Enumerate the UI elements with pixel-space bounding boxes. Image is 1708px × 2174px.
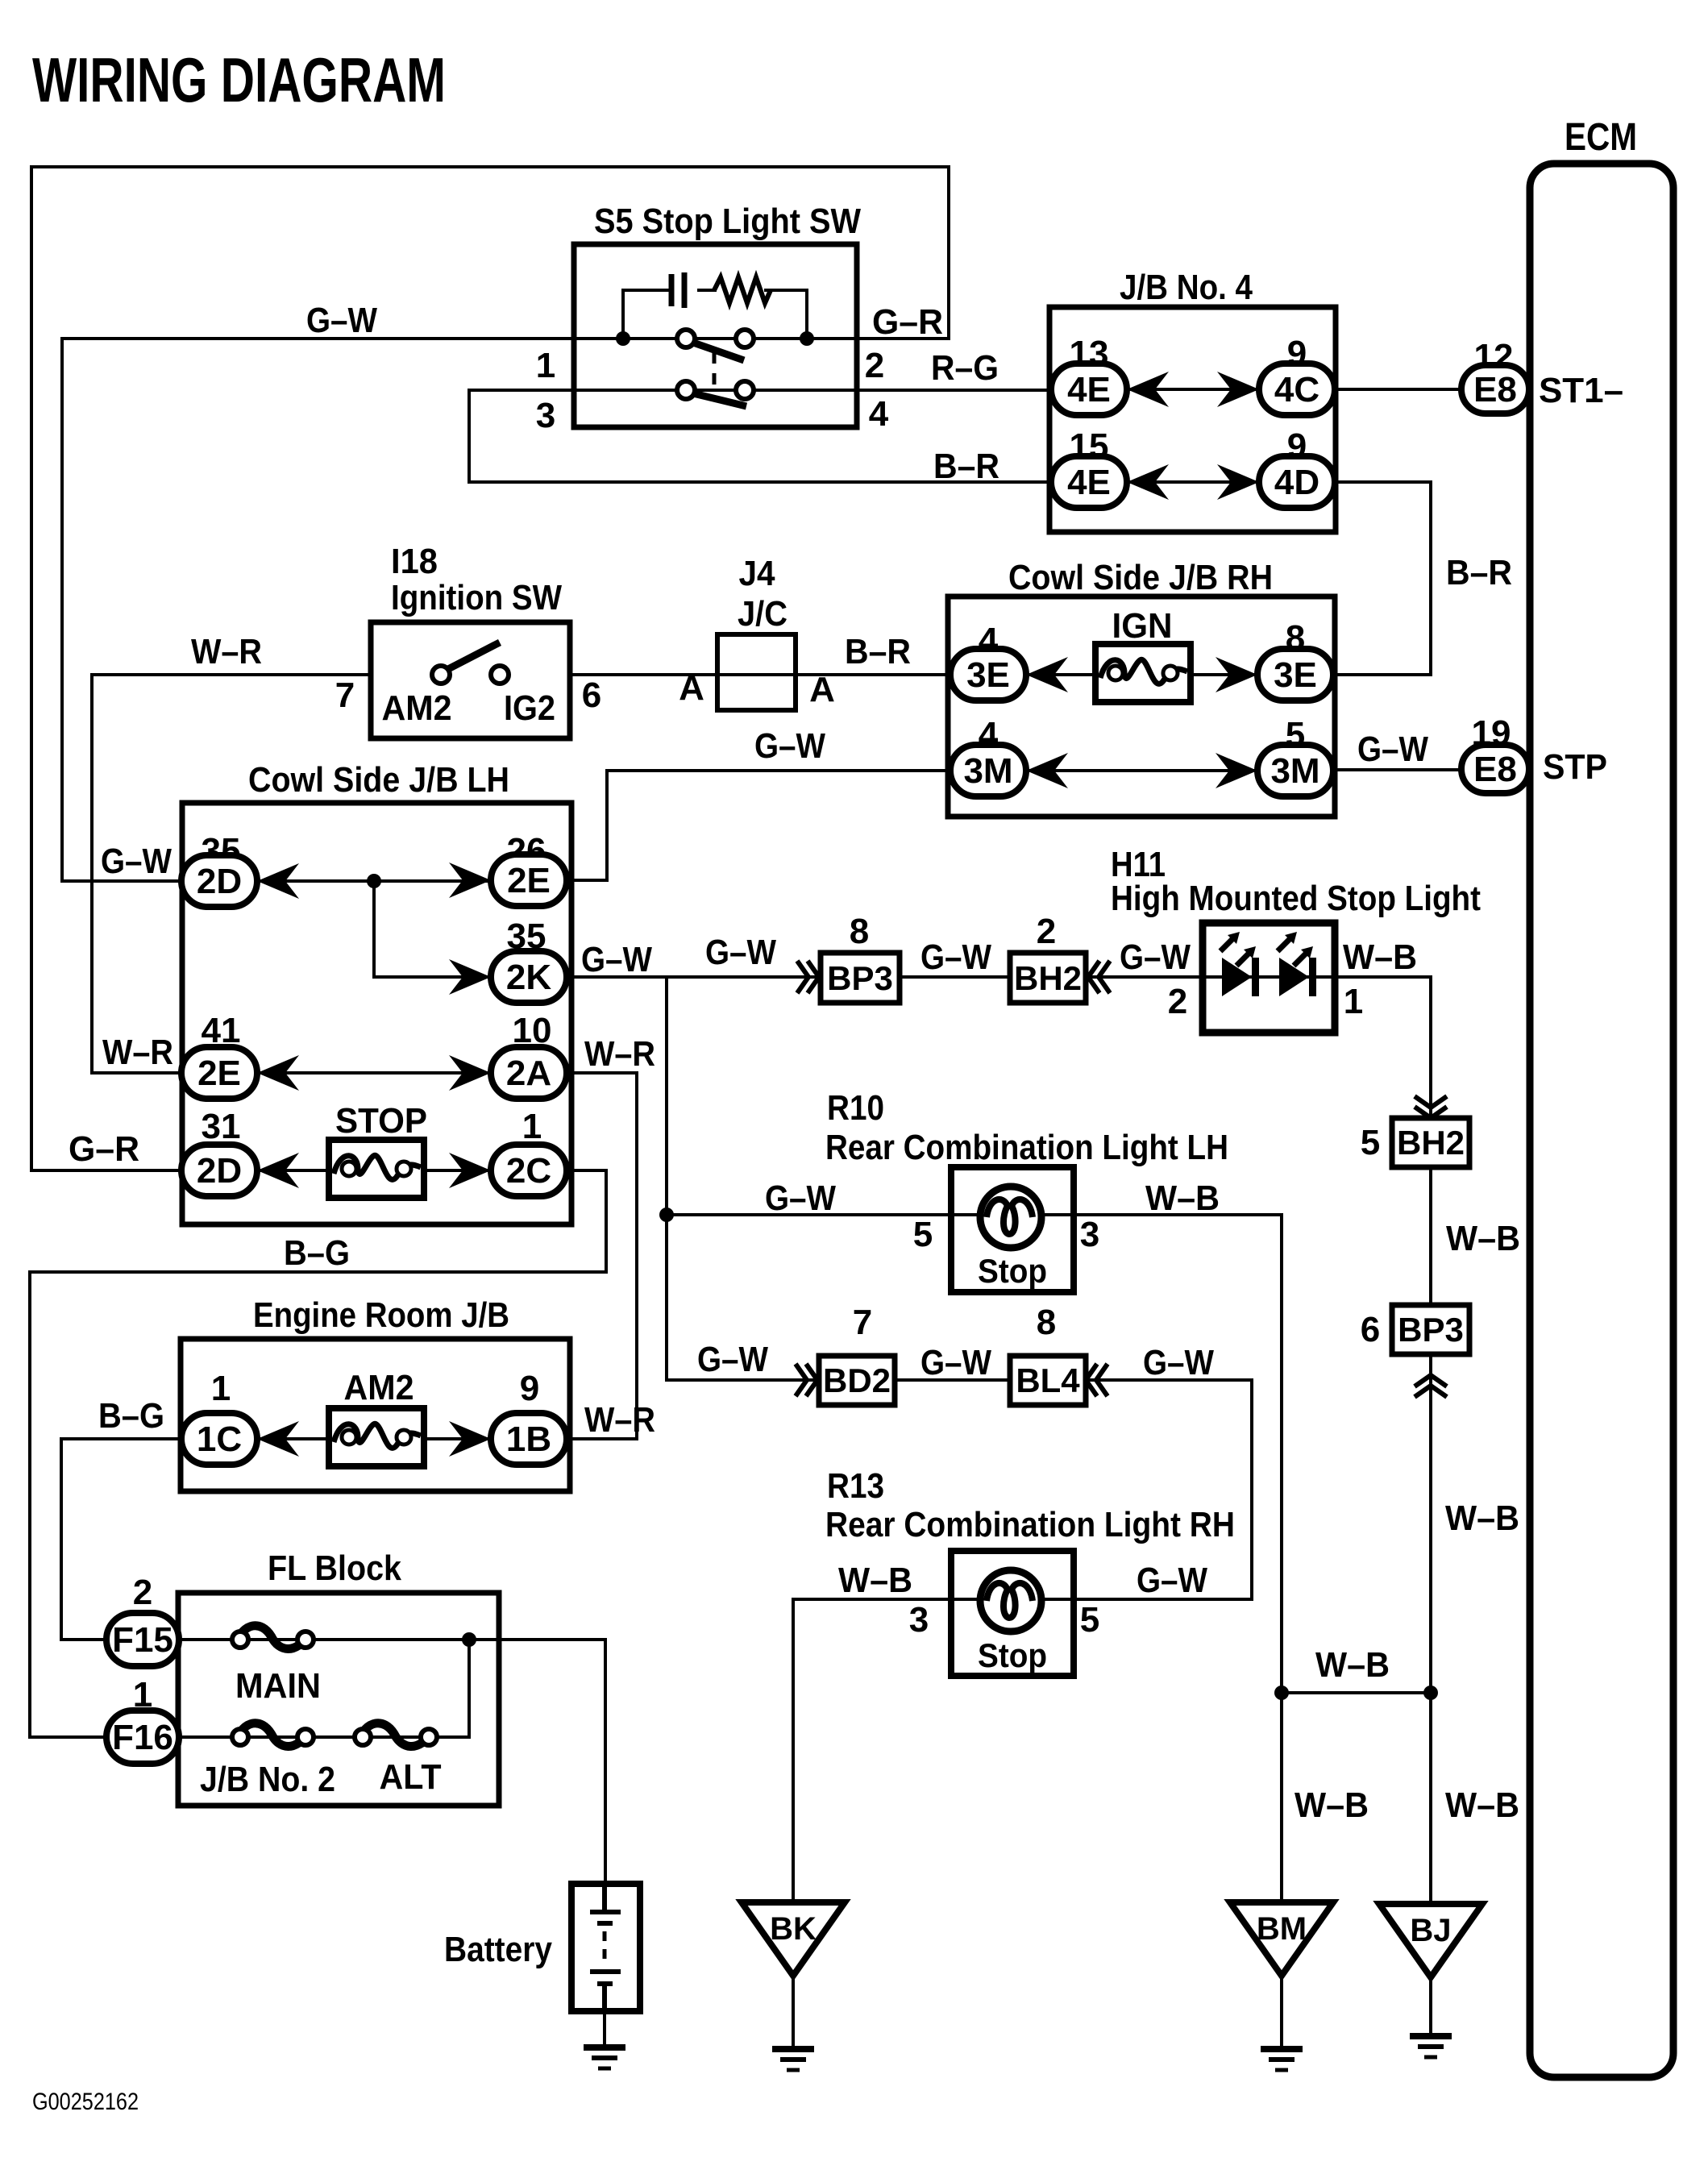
wire B-R ignition SW to J4 to 3E — [570, 673, 954, 676]
svg-text:G–W: G–W — [306, 301, 377, 340]
fusible link MAIN — [235, 1626, 309, 1649]
svg-text:W–B: W–B — [1445, 1499, 1519, 1538]
svg-text:Stop: Stop — [978, 1252, 1047, 1290]
svg-text:W–B: W–B — [1445, 1785, 1519, 1825]
svg-text:STP: STP — [1543, 747, 1607, 787]
arrow right row2 — [1217, 464, 1259, 500]
svg-text:2E: 2E — [507, 861, 551, 900]
svg-text:W–B: W–B — [1295, 1785, 1369, 1825]
resistor in S5 — [714, 277, 771, 303]
wire R-G S5 pin4 to 4E(13) — [857, 389, 1053, 392]
ECU ECM box — [1530, 164, 1673, 2077]
switch blade 1-2 — [693, 343, 744, 360]
svg-text:2E: 2E — [197, 1054, 241, 1093]
LED 2 — [1279, 958, 1309, 996]
connector 2A — [491, 1047, 567, 1099]
svg-text:B–R: B–R — [1446, 553, 1512, 592]
junction connector J4 box — [717, 634, 796, 710]
svg-text:3: 3 — [909, 1600, 929, 1640]
arrow left 2E41 — [257, 1055, 299, 1091]
svg-text:G00252162: G00252162 — [32, 2089, 139, 2115]
wire 2C B-G down to F16 — [30, 1170, 606, 1737]
svg-text:B–G: B–G — [98, 1396, 164, 1436]
arrow right 3M — [1216, 753, 1257, 788]
svg-text:2: 2 — [865, 346, 884, 385]
wire BP3 to BH2 G-W — [900, 975, 1012, 979]
svg-text:G–W: G–W — [1143, 1343, 1214, 1382]
wire BH2 to H11 G-W — [1086, 975, 1205, 979]
svg-text:G–R: G–R — [69, 1129, 139, 1169]
wire AM2 fuse row — [255, 1437, 491, 1440]
connector 3E left — [950, 649, 1026, 700]
fusible link ALT — [358, 1723, 432, 1747]
svg-text:AM2: AM2 — [344, 1368, 414, 1407]
wire FL block MAIN row to battery — [177, 1640, 605, 1884]
svg-text:Cowl Side J/B RH: Cowl Side J/B RH — [1008, 558, 1273, 597]
connector F16 — [106, 1711, 179, 1764]
wire 2D to 2E row — [255, 879, 491, 883]
svg-text:J4: J4 — [739, 554, 775, 593]
wire R10 pin3 W-B down to BM — [1071, 1215, 1282, 1907]
switch I18 ignition box — [371, 622, 570, 738]
svg-text:J/C: J/C — [738, 594, 788, 634]
arrow right 2K — [449, 959, 491, 995]
connector 3E right — [1257, 649, 1333, 700]
wire H11 pin1 W-B down to BH2(5) — [1332, 977, 1431, 1118]
connector 4C — [1259, 364, 1335, 415]
junction block Engine Room J/B box — [181, 1339, 570, 1491]
connector 4E row2 — [1051, 456, 1127, 508]
svg-text:FL Block: FL Block — [268, 1548, 401, 1588]
svg-text:3M: 3M — [1270, 751, 1319, 791]
junction dot S5 right — [800, 331, 814, 346]
wire S5 pin3 to 4E(15) B-R — [469, 390, 1053, 482]
switch contact 3-4 circles — [677, 381, 695, 399]
svg-text:IG2: IG2 — [504, 688, 555, 728]
connector 2D — [181, 855, 257, 907]
svg-text:1: 1 — [211, 1369, 231, 1408]
svg-text:G–W: G–W — [697, 1340, 768, 1379]
junction dot G-W branch R10 — [659, 1208, 674, 1222]
wire STOP fuse row — [255, 1169, 491, 1172]
svg-text:W–B: W–B — [1446, 1219, 1520, 1258]
connector F15 — [106, 1613, 179, 1666]
svg-text:G–W: G–W — [920, 937, 991, 977]
svg-text:G–W: G–W — [1120, 937, 1191, 977]
svg-text:Cowl Side J/B LH: Cowl Side J/B LH — [248, 760, 509, 800]
wire J/B No.4 row1 link — [1127, 388, 1259, 391]
wire S5 internal loop — [623, 290, 807, 339]
svg-text:W–B: W–B — [1343, 937, 1417, 977]
ground BK — [772, 2046, 814, 2052]
wire BP3(6) down to BJ W-B — [1429, 1353, 1432, 1907]
wire through H11 — [1205, 975, 1332, 979]
ground BM — [1261, 2046, 1303, 2052]
svg-text:I18: I18 — [391, 542, 438, 581]
svg-text:2: 2 — [1168, 982, 1187, 1021]
svg-text:31: 31 — [202, 1107, 241, 1146]
svg-text:8: 8 — [850, 912, 869, 951]
junction dot BJ drop — [1423, 1686, 1438, 1700]
switch link dashed — [713, 352, 717, 387]
wire 2E(26) up to 3M left G-W — [562, 771, 954, 880]
connector 2C — [491, 1145, 567, 1196]
wire battery to ground — [603, 2011, 606, 2047]
svg-text:2D: 2D — [197, 1151, 242, 1191]
svg-text:1: 1 — [1344, 982, 1363, 1021]
bulb R10 — [980, 1187, 1041, 1248]
svg-text:6: 6 — [1361, 1310, 1380, 1349]
wire through R13 stop — [951, 1598, 1071, 1601]
connector BP3 6 — [1392, 1305, 1469, 1354]
arrow left 3M — [1026, 753, 1068, 788]
arrow left row2 — [1127, 464, 1169, 500]
ignition blade — [448, 642, 500, 669]
svg-text:3M: 3M — [963, 751, 1012, 791]
svg-text:BH2: BH2 — [1397, 1124, 1465, 1162]
svg-text:AM2: AM2 — [382, 688, 452, 728]
ignition contacts — [432, 666, 450, 684]
svg-text:S5 Stop Light SW: S5 Stop Light SW — [594, 202, 861, 241]
svg-text:3: 3 — [1080, 1215, 1099, 1254]
svg-text:Engine Room J/B: Engine Room J/B — [253, 1295, 509, 1335]
wire 4C to E8 ST1- — [1332, 388, 1464, 391]
svg-text:ALT: ALT — [380, 1757, 442, 1797]
svg-text:High Mounted Stop Light: High Mounted Stop Light — [1111, 879, 1481, 918]
arrow left 1C — [257, 1421, 299, 1457]
svg-text:BJ: BJ — [1410, 1913, 1451, 1948]
wire 2K out G-W — [562, 975, 819, 979]
svg-text:IGN: IGN — [1112, 606, 1173, 646]
wire 1C B-G to F15 — [61, 1439, 184, 1640]
switch contact 1-2 circles — [677, 330, 695, 347]
connector BL4 — [1010, 1356, 1086, 1405]
svg-text:1B: 1B — [506, 1420, 551, 1459]
svg-text:W–B: W–B — [1315, 1645, 1390, 1685]
svg-text:W–B: W–B — [1145, 1178, 1220, 1218]
svg-text:G–W: G–W — [1137, 1561, 1207, 1600]
wire 2A to 1B W-R — [562, 1073, 637, 1439]
lamp R13 stop box — [951, 1551, 1074, 1676]
connector BH2 5 — [1392, 1118, 1469, 1167]
wire S5 internal row1 — [574, 337, 857, 340]
connector 4D — [1259, 456, 1335, 508]
svg-text:B–R: B–R — [933, 447, 999, 486]
connector BP3 — [821, 953, 900, 1003]
wire 3M fuse row — [1024, 769, 1260, 772]
svg-text:BH2: BH2 — [1014, 959, 1082, 997]
junction dot BM drop — [1274, 1686, 1289, 1700]
svg-text:Stop: Stop — [978, 1636, 1047, 1674]
svg-text:F15: F15 — [112, 1620, 173, 1660]
svg-text:G–W: G–W — [581, 940, 652, 979]
junction dot FL — [462, 1632, 476, 1647]
svg-text:ST1–: ST1– — [1539, 371, 1623, 410]
arrow right 2C — [449, 1153, 491, 1188]
arrow left 2D31 — [257, 1153, 299, 1188]
wire IGN fuse row — [1024, 673, 1260, 676]
svg-text:ECM: ECM — [1565, 116, 1637, 159]
connector 3M right — [1257, 745, 1333, 796]
svg-text:E8: E8 — [1473, 750, 1517, 789]
ground connector BM — [1230, 1902, 1333, 1976]
arrow right 2E26 — [449, 863, 491, 898]
svg-text:WIRING DIAGRAM: WIRING DIAGRAM — [32, 44, 446, 115]
wire BM to ground — [1280, 1976, 1283, 2049]
svg-text:1: 1 — [536, 346, 555, 385]
arrow left 3E — [1026, 657, 1068, 692]
svg-text:7: 7 — [335, 675, 355, 715]
junction block Cowl Side J/B LH box — [182, 803, 571, 1224]
wire S5 internal row2 — [574, 389, 857, 392]
connector 3M left — [950, 745, 1026, 796]
wire J/B No.4 row2 link — [1127, 480, 1259, 484]
connector 1B — [491, 1413, 567, 1465]
fuse STOP — [329, 1140, 424, 1198]
wire G-W to R10 stop pin5 — [667, 1213, 951, 1216]
svg-text:F16: F16 — [112, 1718, 173, 1757]
wire 4D to 3E right B-R — [1331, 482, 1431, 675]
svg-text:5: 5 — [913, 1215, 933, 1254]
connector E8 STP — [1461, 745, 1529, 793]
svg-text:4: 4 — [869, 394, 889, 434]
svg-text:W–R: W–R — [191, 632, 262, 671]
svg-text:R13: R13 — [827, 1466, 884, 1506]
svg-text:BD2: BD2 — [823, 1361, 891, 1399]
svg-text:G–W: G–W — [765, 1178, 836, 1218]
svg-text:BL4: BL4 — [1016, 1361, 1080, 1399]
svg-text:2: 2 — [1037, 912, 1056, 951]
svg-text:J/B No. 4: J/B No. 4 — [1120, 268, 1253, 307]
svg-text:STOP: STOP — [335, 1101, 427, 1141]
svg-text:W–B: W–B — [838, 1561, 912, 1600]
svg-text:A: A — [679, 668, 704, 708]
svg-text:E8: E8 — [1473, 370, 1517, 409]
svg-text:5: 5 — [1080, 1600, 1099, 1640]
chevrons down into BH2 5 — [1415, 1096, 1447, 1118]
fuse AM2 — [329, 1408, 424, 1466]
lamp R10 stop box — [951, 1167, 1074, 1292]
svg-text:2K: 2K — [506, 958, 551, 997]
wire FL block J/B No.2 ALT row — [177, 1640, 469, 1737]
capacitor in S5 — [671, 272, 684, 308]
arrow right 2A — [449, 1055, 491, 1091]
ground connector BJ — [1379, 1904, 1482, 1977]
svg-text:8: 8 — [1037, 1303, 1056, 1342]
svg-text:BK: BK — [770, 1911, 817, 1947]
junction dot S5 left — [616, 331, 630, 346]
ground BJ — [1410, 2033, 1452, 2039]
battery internal symbol — [590, 1884, 621, 2011]
svg-text:BM: BM — [1257, 1911, 1307, 1947]
switch blade 3-4 — [693, 393, 746, 406]
chevrons out of BL4 — [1086, 1364, 1107, 1396]
arrow right 1B — [449, 1421, 491, 1457]
wire W-R ignition to 2E(41) — [92, 675, 371, 1073]
connector BH2 — [1010, 953, 1086, 1003]
arrow right row1 — [1217, 372, 1259, 407]
svg-text:R10: R10 — [827, 1088, 884, 1128]
svg-text:G–W: G–W — [754, 726, 825, 766]
wire BH2(5) to BP3(6) W-B — [1429, 1167, 1432, 1305]
svg-text:W–R: W–R — [584, 1034, 655, 1074]
svg-text:G–W: G–W — [920, 1343, 991, 1382]
fusible link J/B No.2 — [235, 1723, 309, 1747]
svg-text:G–R: G–R — [872, 302, 943, 342]
wire BD2 to BL4 G-W — [895, 1378, 1012, 1382]
fusible link block FL box — [178, 1593, 499, 1806]
connector E8 ST1 — [1461, 365, 1529, 414]
chevrons out of BH2 — [1088, 961, 1110, 993]
wire 2E(41) to 2A row — [255, 1071, 491, 1075]
arrow left 2D — [257, 863, 299, 899]
svg-text:Rear Combination Light RH: Rear Combination Light RH — [825, 1505, 1235, 1544]
svg-text:G–W: G–W — [705, 933, 776, 972]
connector 4E row1 — [1051, 364, 1127, 415]
svg-text:1C: 1C — [197, 1420, 242, 1459]
svg-text:2A: 2A — [506, 1054, 551, 1093]
svg-text:Battery: Battery — [444, 1930, 552, 1969]
bulb R13 — [980, 1570, 1041, 1632]
wire through R10 stop — [951, 1213, 1071, 1216]
svg-text:G–W: G–W — [1357, 730, 1428, 769]
svg-text:3E: 3E — [1274, 655, 1317, 695]
chevrons into BP3 — [797, 961, 819, 993]
ground battery — [584, 2044, 625, 2051]
wire R13 pin3 W-B down to BK — [793, 1599, 951, 1907]
wire BK to ground — [792, 1976, 795, 2049]
wire W-B jumper between BM and BJ drops — [1282, 1691, 1431, 1694]
lamp H11 box — [1203, 923, 1335, 1033]
connector 2D 31 — [181, 1145, 257, 1196]
junction dot branch — [367, 874, 381, 888]
svg-text:BP3: BP3 — [1398, 1311, 1464, 1349]
connector 2K — [491, 951, 567, 1003]
connector 2E 41 — [181, 1047, 257, 1099]
svg-text:2D: 2D — [197, 862, 242, 901]
svg-text:R–G: R–G — [931, 348, 999, 388]
svg-text:5: 5 — [1361, 1123, 1380, 1162]
svg-text:J/B No. 2: J/B No. 2 — [200, 1760, 335, 1799]
switch S5 box — [574, 244, 857, 427]
LED 1 — [1222, 958, 1252, 996]
wire BJ to ground — [1429, 1972, 1432, 2035]
svg-text:3: 3 — [536, 396, 555, 435]
svg-text:Rear Combination Light LH: Rear Combination Light LH — [825, 1128, 1228, 1167]
battery box — [571, 1884, 640, 2011]
svg-text:W–R: W–R — [102, 1033, 173, 1072]
junction block J/B No.4 box — [1049, 307, 1336, 532]
svg-text:4D: 4D — [1274, 463, 1319, 502]
wire G-R loop from S5 pin2 around to 2D(31) — [31, 167, 949, 1170]
svg-text:2: 2 — [133, 1573, 152, 1612]
svg-text:7: 7 — [853, 1303, 872, 1342]
junction block Cowl Side J/B RH box — [948, 596, 1335, 817]
svg-text:6: 6 — [582, 675, 601, 715]
svg-text:B–G: B–G — [284, 1233, 350, 1273]
wire G-W vertical 2K branch to BD2 row — [667, 977, 817, 1380]
svg-text:3E: 3E — [966, 655, 1010, 695]
svg-text:B–R: B–R — [845, 632, 911, 671]
wire G-W from stop light SW pin1 to 2D — [62, 339, 574, 881]
fuse IGN — [1095, 644, 1191, 702]
svg-text:MAIN: MAIN — [235, 1666, 321, 1706]
wire BL4 to R13 pin5 G-W — [1071, 1380, 1252, 1599]
svg-text:BP3: BP3 — [827, 959, 893, 997]
svg-text:1: 1 — [522, 1107, 542, 1146]
connector 1C — [181, 1413, 257, 1465]
connector BD2 — [819, 1356, 895, 1405]
arrow left row1 — [1127, 372, 1169, 407]
arrow right 3E — [1216, 657, 1257, 692]
svg-text:4E: 4E — [1067, 463, 1111, 502]
connector 2E 26 — [491, 854, 567, 906]
ground connector BK — [742, 1902, 845, 1976]
svg-text:A: A — [809, 670, 835, 709]
chevrons into BD2 — [796, 1364, 817, 1396]
svg-text:4E: 4E — [1067, 370, 1111, 409]
svg-text:4C: 4C — [1274, 370, 1319, 409]
svg-text:Ignition SW: Ignition SW — [391, 578, 562, 617]
svg-text:G–W: G–W — [101, 842, 172, 881]
wire 3M right to E8 STP G-W — [1331, 768, 1464, 771]
svg-text:2C: 2C — [506, 1151, 551, 1191]
svg-text:W–R: W–R — [584, 1400, 655, 1440]
svg-text:9: 9 — [520, 1369, 539, 1408]
chevrons up into BP3 6 — [1415, 1375, 1447, 1397]
wire branch down to 2K — [374, 881, 491, 977]
